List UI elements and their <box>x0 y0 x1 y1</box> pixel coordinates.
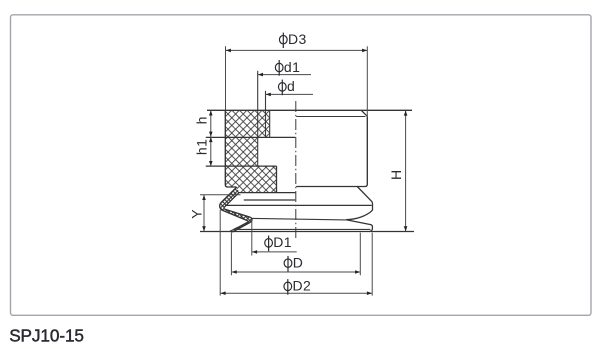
phi-D dimension line <box>232 271 360 273</box>
svg-text:d: d <box>287 78 295 94</box>
h / h1 dimension line <box>210 111 212 167</box>
top chamfer diagonal <box>361 110 367 116</box>
svg-text:D2: D2 <box>293 278 312 294</box>
hatch band2 <box>225 137 257 166</box>
svg-text:D3: D3 <box>288 31 307 47</box>
top face line (also H top extension) <box>207 109 412 111</box>
label phiD3 <box>279 33 287 48</box>
Y dimension line <box>203 195 205 231</box>
band1 inner step edge <box>269 110 271 137</box>
lip top surface line <box>235 228 371 230</box>
phi-d hole edge + extension <box>265 91 267 138</box>
phi-D3 right extension / body edge upper <box>366 46 368 116</box>
label phiD <box>284 256 292 272</box>
svg-text:h1: h1 <box>193 139 209 155</box>
svg-text:h: h <box>193 116 209 124</box>
band3 right edge <box>276 166 278 193</box>
center line (dash-dot) <box>295 101 297 239</box>
label phid <box>278 80 286 96</box>
svg-text:H: H <box>388 170 404 181</box>
crease line <box>252 218 346 220</box>
lip bottom line (also Y and H bottom extension) <box>200 231 414 233</box>
band3 bottom line <box>238 192 295 194</box>
lower cone top edge line <box>225 204 372 206</box>
H dimension line <box>405 111 407 232</box>
svg-text:SPJ10-15: SPJ10-15 <box>9 326 84 346</box>
phi-D left extension <box>230 233 232 276</box>
hatch band1 (top flange section) <box>225 110 269 137</box>
phi-d1 dimension line (arrow left) <box>258 74 311 76</box>
label phiD2 <box>284 279 292 295</box>
svg-text:D: D <box>293 255 304 271</box>
phi-D3 left extension <box>225 46 227 110</box>
Y top extension <box>200 194 241 196</box>
bellows outer surface (wall1 outer, left bend, wall2 bottom, crease, wall3 top) <box>220 187 249 230</box>
svg-text:Y: Y <box>188 209 204 219</box>
phi-D right extension <box>359 233 361 276</box>
svg-text:D1: D1 <box>273 234 292 250</box>
phi-d dimension line (arrow left) <box>266 93 313 95</box>
bellows flare diagonal <box>357 187 372 211</box>
bellows inner surface (wall1 inner, wall2 top, right bend, wall3 bottom) <box>224 192 252 232</box>
band2 right edge + phi-d1 extension <box>257 71 259 166</box>
band2 bottom line <box>206 165 277 167</box>
hatch bellows wall (S-fold section) <box>220 187 252 232</box>
chamfer base edge line <box>296 116 365 118</box>
phi-D1 left extension <box>251 220 253 256</box>
inner ring line <box>244 199 295 201</box>
label phid1 <box>275 60 283 76</box>
right V diagonal and lip outer edge <box>346 220 372 232</box>
body right edge <box>296 116 367 186</box>
phi-D2 dimension line <box>221 292 372 294</box>
phi-D2 right extension <box>371 233 373 296</box>
hatch band3 (stepped) <box>225 166 276 193</box>
right concave curve to cusp <box>346 210 372 220</box>
band1 bottom line <box>206 136 296 138</box>
lip tip cap and curl edge <box>230 227 237 232</box>
svg-text:d1: d1 <box>284 59 300 75</box>
label phiD1 <box>265 236 273 252</box>
left block edge with rounded bottom corner <box>225 110 236 187</box>
phi-D3 dimension line <box>226 49 367 51</box>
phi-D1 dimension line (arrow left) <box>252 251 297 253</box>
phi-D2 left extension <box>219 210 221 296</box>
